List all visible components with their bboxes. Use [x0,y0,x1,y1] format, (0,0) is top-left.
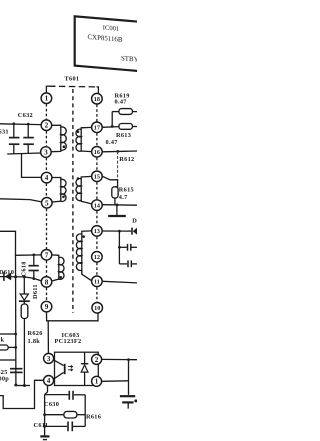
svg-text:PC123F2: PC123F2 [55,338,82,345]
wire : left edge to pin 5 [0,199,41,202]
wire : R626 riser to opto pin 3 [47,321,49,354]
svg-text:13: 13 [94,228,100,235]
node pin 13 [92,226,103,237]
svg-text:R613: R613 [116,132,131,139]
svg-text:C630: C630 [44,401,59,408]
node pin 2 [41,120,52,131]
svg-text:3: 3 [44,149,48,157]
svg-text:R612: R612 [119,156,134,163]
svg-text:1.8k: 1.8k [28,338,41,345]
wire : left vertical of RC net [44,395,46,436]
node pin 18 [92,93,103,104]
node pin 14 [92,200,103,211]
node opto pin 3 [44,353,54,363]
wire : left edge to pin 7 [0,231,41,255]
svg-text:R626: R626 [28,330,43,337]
wire : left edge to pin 2 [0,123,41,126]
wire : junction column down [118,231,120,264]
svg-text:R615: R615 [119,187,134,194]
wire : junction down to R615 [117,151,119,181]
node pin 16 [92,147,103,158]
svg-text:5: 5 [45,199,49,207]
svg-text:15: 15 [94,174,100,181]
node opto pin 4 [44,376,54,386]
svg-text:IC001: IC001 [103,24,120,32]
node pin 1 [41,93,52,104]
wire : pin 13 to diode [103,230,132,232]
9-10 U wire [47,312,99,321]
svg-text:12: 12 [94,254,100,261]
optocoupler IC603 box [55,352,99,385]
resistor (left edge, cut) [0,337,17,350]
svg-text:14: 14 [94,202,100,209]
resistor R619 [112,109,137,115]
svg-text:10: 10 [94,305,100,312]
svg-text:2: 2 [45,122,49,130]
svg-text:C618: C618 [21,261,28,276]
svg-text:9: 9 [45,303,49,311]
node pin 11 [92,276,103,287]
svg-text:1: 1 [45,95,49,103]
node pin 5 [42,198,53,209]
node A column (left vertical) [15,255,17,385]
photodiode inside opto [81,352,88,385]
wire : junction column down [128,360,130,395]
wire : left edge D610 branch [0,277,41,281]
capacitor C630 [69,391,85,400]
dashed pin column right [96,105,98,303]
wire : caps bottom to pin 3 [7,153,41,154]
winding 2-3 (primary top) [52,125,66,151]
svg-text:3: 3 [47,355,51,363]
capacitor C618 [29,254,39,281]
capacitor (right edge, lower) [119,260,137,267]
svg-text:C611: C611 [34,422,49,429]
wire : opto pin 2 to right edge [102,358,137,360]
LED inside opto [53,360,72,379]
capacitor to ground (bottom right) [120,396,137,408]
node opto pin 1 [92,376,102,386]
node pin 8 [41,277,52,288]
svg-text:4.7: 4.7 [119,194,128,201]
svg-text:2: 2 [95,356,99,364]
svg-text:16: 16 [94,149,100,156]
wire : pin 14 to right edge [103,204,138,207]
svg-text:T601: T601 [65,76,80,83]
dashed pin column left [45,104,47,301]
wire : right vertical of RC net [84,395,86,427]
svg-text:CXP85116B: CXP85116B [87,34,122,44]
svg-text:11: 11 [94,279,100,286]
wire : pin 16 to right edge [103,150,138,153]
winding 17-16 (secondary) [76,127,91,151]
resistor R615 [112,187,118,205]
wire : pin 15 to R615 top [103,176,118,187]
wire : pin 17 to R613 [103,126,119,129]
wire : opto pin 1 to junction column [102,380,129,383]
svg-text:8: 8 [45,278,49,286]
svg-text:7: 7 [45,251,49,259]
svg-text:k: k [1,337,5,344]
node pin 15 [92,171,103,182]
capacitor C631 [9,122,20,154]
wire : opto pin4 left loop to edge [0,380,44,408]
svg-text:C632: C632 [18,112,33,119]
resistor R625 (vertical) [21,304,28,386]
ground (bottom left) [40,436,49,439]
transformer core dashed line [72,89,74,313]
capacitor (right edge, upper) [119,244,137,251]
svg-text:0.47: 0.47 [106,139,118,146]
svg-text:R616: R616 [86,413,101,420]
wire : loop joining pin 3 and pin 4 [22,154,42,177]
wire : R619 drop to pin17 wire [111,112,113,127]
op-amp U1 : IC001 microcontroller box (skewed scan) [75,16,141,71]
node pin 3 [41,147,52,158]
node pin 10 [92,303,103,314]
svg-text:D6: D6 [132,218,137,225]
wire : pin1 top to pin18 top [46,86,49,93]
winding 13-11 [76,231,91,281]
resistor R616 [45,411,86,418]
diode D610 [4,272,11,281]
capacitor C611 [45,422,86,432]
svg-text:17: 17 [94,125,100,132]
svg-text:1000p: 1000p [0,376,9,383]
wire : left edge stub y360 [0,359,16,361]
svg-text:1: 1 [95,378,99,386]
svg-text:631: 631 [0,128,9,135]
svg-text:18: 18 [94,96,100,103]
winding 15-14 [76,176,92,204]
svg-text:4: 4 [47,377,51,385]
node pin 9 [41,301,52,312]
svg-text:D610: D610 [0,269,14,276]
capacitor C625 [10,369,23,373]
winding 7-8 [52,255,64,281]
wire : A+B join y385.5 [16,385,30,387]
diode D6xx (cut at edge) [132,227,138,235]
ground (pin14 / R615) [108,205,126,216]
svg-text:4: 4 [45,174,49,182]
wire : C630 top branch [45,394,69,396]
svg-text:0.47: 0.47 [115,99,127,106]
wire : opto pin4 down to C630 net [45,385,48,394]
svg-text:D611: D611 [32,284,39,299]
wire : left edge stub y334 [0,333,16,335]
wire : pin 11 to right edge [103,281,138,283]
svg-text:STBY: STBY [121,55,137,63]
resistor R613 [119,124,137,130]
diode D611 [19,275,30,304]
winding 4-5 [52,178,66,203]
node pin 4 [41,172,52,183]
capacitor C632 [23,123,34,154]
node pin 12 [92,251,103,262]
node opto pin 2 [92,354,102,364]
node pin 7 [41,250,52,261]
node pin 17 [92,122,103,133]
